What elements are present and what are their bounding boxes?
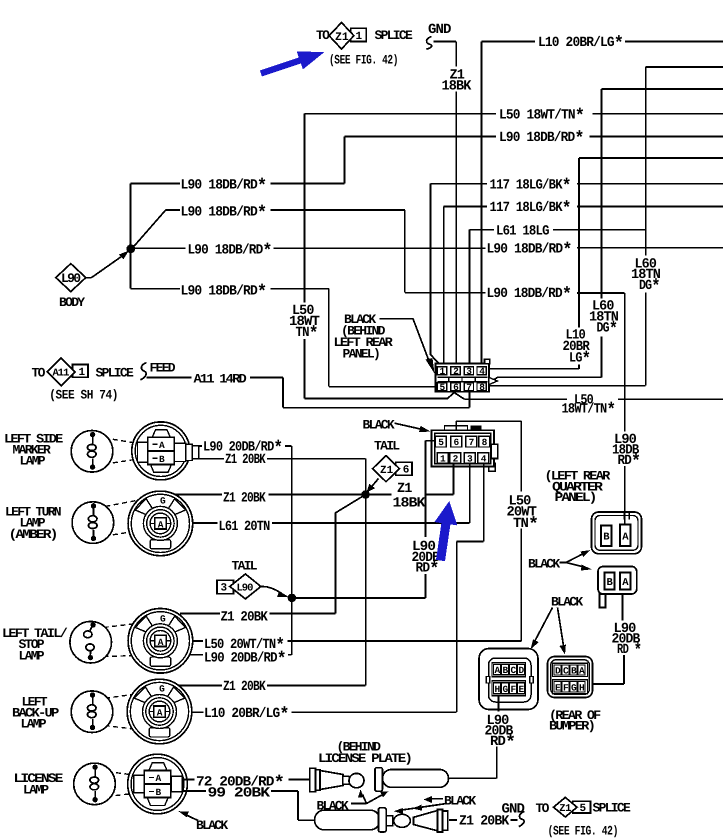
- svg-text:117 18LG/BK*: 117 18LG/BK*: [490, 176, 572, 197]
- svg-text:G: G: [160, 614, 166, 625]
- svg-text:C: C: [511, 665, 517, 676]
- wire L90 18DB/RD (left x130 through junction to right edge y247.7): [131, 240, 723, 262]
- svg-text:BLACK: BLACK: [528, 557, 560, 572]
- svg-text:RD*: RD*: [416, 559, 440, 580]
- svg-text:6: 6: [454, 437, 460, 448]
- svg-text:3: 3: [466, 366, 472, 377]
- svg-text:2: 2: [453, 454, 459, 465]
- svg-text:7: 7: [466, 382, 472, 393]
- svg-text:L90 18DB/RD*: L90 18DB/RD*: [181, 282, 268, 303]
- svg-text:L90 20DB/RD*: L90 20DB/RD*: [204, 649, 287, 670]
- svg-text:L61 20TN: L61 20TN: [219, 519, 270, 535]
- wire 117 18LG/BK no.1 (right edge y183.6 to C1 pin 1): [431, 176, 723, 367]
- svg-text:117 18LG/BK*: 117 18LG/BK*: [490, 199, 572, 220]
- wire 99 20BK (license lamp B to housing shell): [182, 785, 315, 820]
- connector C5 (8-way ABCD HGFE): [479, 649, 538, 710]
- svg-text:6: 6: [403, 465, 410, 477]
- label (REAR OF BUMPER): [549, 708, 601, 734]
- svg-text:L61 18LG: L61 18LG: [496, 223, 549, 239]
- socket left turn lamp (A terminal, G ground shell): [128, 491, 193, 556]
- svg-text:B: B: [159, 454, 165, 465]
- svg-text:5: 5: [580, 803, 587, 815]
- wire L60 (right edge y67 down x645 to C1 pin 8): [487, 67, 723, 386]
- rear lamp socket cylinder (lower): [315, 808, 448, 832]
- svg-text:L10 20BR/LG*: L10 20BR/LG*: [538, 33, 624, 54]
- svg-text:A: A: [156, 773, 162, 784]
- svg-text:A: A: [157, 708, 163, 719]
- svg-text:TO: TO: [316, 28, 330, 43]
- label BLACK with pointers to C5 and C6: [531, 594, 584, 654]
- wire L50 18WT/TN (from C1 pins 5/6 area to right edge y399): [453, 392, 723, 422]
- wire L10 20BR/LG (to right edge, down to C1 pin 4): [482, 33, 723, 366]
- svg-text:B: B: [571, 665, 577, 676]
- svg-text:Z1 20BK: Z1 20BK: [221, 609, 269, 625]
- label (BEHIND LICENSE PLATE): [318, 739, 411, 766]
- node junction dot (L90 distribution): [126, 244, 135, 253]
- lamp tail-stop bulb (dual filament): [70, 621, 146, 663]
- socket side marker lamp (A B terminals): [132, 422, 199, 480]
- svg-text:L90: L90: [61, 271, 81, 286]
- wire L61 20TN (turn lamp to C2 pin 3): [167, 464, 470, 535]
- wire L90 18DB/RD (left y210 jog down x405 to y293, right to x625 down to connector B-A): [166, 203, 625, 512]
- svg-text:F: F: [511, 684, 517, 695]
- wire Z1 20BK with ground GND (rear socket): [449, 801, 525, 829]
- svg-text:1: 1: [79, 367, 86, 379]
- svg-text:1: 1: [440, 366, 446, 377]
- svg-text:Z1 20BK: Z1 20BK: [223, 679, 266, 695]
- svg-text:Z1: Z1: [380, 465, 394, 477]
- svg-text:1: 1: [440, 454, 446, 465]
- label BLACK with pointers to rear socket: [394, 793, 477, 814]
- lamp LEFT BACK-UP LAMP label: [12, 695, 60, 732]
- svg-text:Z1: Z1: [559, 803, 571, 815]
- wire L50 20WT/TN (tail-stop lamp via x521 to C2 pin 6 and right): [193, 421, 539, 656]
- lamp back-up bulb: [71, 691, 136, 733]
- svg-text:TN*: TN*: [296, 324, 319, 345]
- svg-text:Z1 20BK: Z1 20BK: [223, 490, 266, 506]
- svg-text:G: G: [571, 682, 577, 693]
- lamp LICENSE LAMP label: [14, 771, 64, 798]
- label BLACK with pointers to C3 and C4: [528, 550, 592, 572]
- svg-text:PANEL): PANEL): [555, 490, 596, 505]
- svg-text:(AMBER): (AMBER): [9, 527, 57, 542]
- wire diagonal from junction to line 2: [131, 210, 166, 250]
- wire L10 20BR LG (right edge y157.9 down x579 to C1 right): [489, 158, 723, 370]
- svg-text:TO: TO: [32, 366, 46, 381]
- connector L90 BODY diamond: [56, 251, 129, 310]
- label BLACK with pointer to C2: [363, 418, 431, 433]
- svg-text:A11: A11: [53, 368, 70, 380]
- label L90 18DB RD (wire into C3): [612, 432, 641, 473]
- svg-text:A: A: [622, 532, 629, 544]
- svg-text:L90 18DB/RD*: L90 18DB/RD*: [188, 241, 273, 262]
- connector C4 (2-way B A): [598, 567, 637, 608]
- connector C3 (2-way B A, left rear quarter panel): [592, 512, 642, 554]
- svg-text:(SEE FIG. 42): (SEE FIG. 42): [548, 823, 618, 838]
- splice symbol Z1-6 (tail ground): [367, 456, 413, 493]
- wire L60 18TN DG (right edge y89 down x601 to C1 tab): [491, 89, 723, 382]
- wire Z1 20BK / Z1 18BK ground bus (turn lamp to C2 pin 2 through junction): [172, 464, 454, 512]
- svg-text:A11 14RD: A11 14RD: [194, 371, 248, 386]
- svg-text:E: E: [555, 682, 561, 693]
- svg-text:6: 6: [453, 382, 459, 393]
- svg-text:C: C: [563, 665, 569, 676]
- svg-text:H: H: [495, 684, 501, 695]
- svg-text:(SEE FIG. 42): (SEE FIG. 42): [329, 53, 398, 68]
- socket back-up lamp (A terminal, G ground shell): [127, 679, 192, 744]
- svg-text:E: E: [519, 684, 525, 695]
- svg-text:G: G: [159, 684, 165, 695]
- blue arrow 1 (pointing to Z1 splice): [260, 51, 324, 76]
- svg-text:FEED: FEED: [150, 361, 176, 376]
- connector C6 (8-way DCBA EFGH, rear of bumper): [548, 657, 593, 698]
- svg-text:L90 18DB/RD*: L90 18DB/RD*: [181, 203, 268, 224]
- svg-text:TAIL: TAIL: [374, 439, 400, 454]
- svg-text:SPLICE: SPLICE: [593, 801, 632, 816]
- wire L90 20DB RD (junction up x425.4 to C2 pin 5, label inline): [292, 441, 440, 598]
- license lamp plug (tapered, behind license plate): [310, 768, 364, 791]
- lamp LEFT TURN LAMP (AMBER) label: [5, 505, 61, 543]
- svg-text:RD*: RD*: [618, 452, 642, 473]
- wire L90 18DB/RD line 4 (left, y288.7 to C1 pin 5): [131, 282, 436, 387]
- svg-text:RD *: RD *: [617, 640, 642, 661]
- svg-text:B: B: [603, 532, 610, 544]
- svg-text:18BK: 18BK: [393, 495, 427, 511]
- svg-text:L90 18DB/RD*: L90 18DB/RD*: [499, 129, 585, 150]
- svg-text:BUMPER): BUMPER): [549, 719, 594, 734]
- connector C1 (8-way, behind left rear panel): [436, 359, 498, 393]
- splice symbol Z1-1 (TO Z1 1 SPLICE, SEE FIG. 42): [316, 23, 413, 68]
- wire Z1 18BK (GND to connector C1 pin 2): [434, 42, 472, 367]
- svg-text:LAMP: LAMP: [19, 649, 45, 664]
- svg-text:RD*: RD*: [490, 733, 516, 754]
- license lamp housing cylinder: [375, 768, 449, 792]
- connector C2 (8-way, tail lamp harness): [432, 426, 498, 471]
- svg-text:BLACK: BLACK: [363, 418, 395, 433]
- svg-text:LAMP: LAMP: [20, 454, 46, 469]
- svg-text:L90: L90: [237, 582, 254, 594]
- label BLACK with pointers to lamp plug: [317, 790, 389, 814]
- svg-text:1: 1: [356, 31, 363, 43]
- svg-text:G: G: [160, 496, 166, 507]
- svg-text:LAMP: LAMP: [21, 717, 47, 732]
- wire 72 20DB/RD (license lamp A to lamp plug): [182, 773, 310, 794]
- label (LEFT REAR QUARTER PANEL): [545, 469, 611, 505]
- node junction dot (L90 tail feed): [288, 594, 297, 603]
- svg-text:A: A: [622, 577, 629, 589]
- socket tail-stop lamp (A terminal, G ground shell): [128, 609, 193, 674]
- wire L90 20DB RD (C4 pin A down to C6): [591, 594, 642, 684]
- svg-text:SPLICE: SPLICE: [375, 28, 414, 43]
- svg-text:2: 2: [453, 366, 459, 377]
- svg-text:SPLICE: SPLICE: [96, 366, 135, 381]
- svg-text:B: B: [503, 665, 509, 676]
- wire L61 18LG (C1 pin 3 up to x645): [469, 223, 645, 366]
- svg-text:H: H: [579, 682, 585, 693]
- wire Z1 20BK (back-up lamp ground): [179, 679, 366, 695]
- wire left distribution vertical x130.5: [130, 184, 132, 289]
- svg-text:A: A: [159, 440, 165, 451]
- splice symbol Z1-5 (TO Z1 5 SPLICE, SEE FIG. 42): [536, 797, 632, 838]
- svg-text:BODY: BODY: [59, 295, 85, 310]
- splice symbol 3-L90 (tail feed): [217, 574, 289, 599]
- svg-text:DG*: DG*: [597, 319, 619, 340]
- svg-text:B: B: [607, 577, 614, 589]
- svg-text:A: A: [158, 519, 164, 530]
- wire L90 20DB/RD (marker lamp down x291.6 to tail-stop lamp): [199, 438, 292, 655]
- svg-text:D: D: [519, 665, 525, 676]
- wire Z1 20BK (tail-stop lamp, jog x335 diagonal to junction): [180, 495, 366, 626]
- svg-text:L50 18WT/TN*: L50 18WT/TN*: [499, 106, 585, 127]
- svg-text:BLACK: BLACK: [196, 818, 228, 833]
- splice symbol A11-1 (TO A11 1 SPLICE, SEE SH 74): [32, 358, 135, 403]
- svg-text:L90 18DB/RD*: L90 18DB/RD*: [181, 176, 268, 197]
- wire L10 20BR/LG (back-up lamp to C2 pin 4 via x456.6): [166, 464, 484, 726]
- svg-text:A: A: [158, 637, 164, 648]
- svg-text:7: 7: [469, 437, 475, 448]
- wire A11 14RD FEED (to C1 pin 7): [141, 361, 470, 408]
- svg-text:DG*: DG*: [639, 276, 661, 297]
- node junction dot (Z1 ground): [361, 490, 370, 499]
- svg-text:8: 8: [479, 382, 485, 393]
- wire 117 18LG/BK no.2 (right edge y206.4 to C1 pin 1): [444, 199, 723, 367]
- svg-text:4: 4: [481, 454, 487, 465]
- svg-text:B: B: [156, 787, 162, 798]
- lamp LEFT SIDE MARKER LAMP label: [4, 432, 63, 469]
- ground GND (top): [426, 22, 451, 49]
- svg-text:G: G: [503, 684, 509, 695]
- svg-text:(SEE SH 74): (SEE SH 74): [49, 388, 118, 403]
- svg-text:TN*: TN*: [513, 515, 539, 536]
- socket license lamp (A B terminals): [128, 754, 188, 814]
- wire L50 18WT/TN (right edge y113.7, down x304 to C1 pin 6): [289, 106, 723, 399]
- svg-text:GND: GND: [428, 22, 451, 38]
- wire L90 18DB/RD (right edge y136.5 joining left line1): [344, 129, 723, 184]
- svg-text:8: 8: [482, 437, 488, 448]
- svg-text:L90 18DB/RD*: L90 18DB/RD*: [487, 285, 573, 306]
- svg-text:5: 5: [440, 382, 446, 393]
- wire Z1 20BK (marker lamp down x365.6) and ground vertical to back-up lamp: [199, 452, 366, 685]
- label BLACK (BEHIND LEFT REAR PANEL) with pointer to C1: [334, 312, 435, 374]
- svg-text:D: D: [555, 665, 561, 676]
- lamp side marker bulb: [71, 431, 138, 473]
- svg-text:GND: GND: [502, 801, 525, 817]
- svg-text:BLACK: BLACK: [551, 594, 583, 609]
- blue arrow 2 (pointing to L90 tail feed wire): [435, 501, 458, 561]
- svg-text:5: 5: [438, 437, 444, 448]
- svg-text:TO: TO: [536, 801, 550, 816]
- lamp LEFT TAIL/STOP LAMP label: [2, 626, 68, 664]
- svg-text:F: F: [563, 682, 569, 693]
- svg-text:LAMP: LAMP: [23, 783, 49, 798]
- svg-text:A: A: [495, 665, 501, 676]
- svg-text:BLACK: BLACK: [444, 793, 476, 808]
- svg-text:3: 3: [221, 583, 228, 595]
- wire L90 18DB/RD line 1 (left, y183.5): [131, 176, 345, 197]
- svg-text:18WT/TN*: 18WT/TN*: [562, 400, 617, 421]
- svg-text:L10 20BR/LG*: L10 20BR/LG*: [204, 704, 290, 725]
- lamp left turn bulb: [72, 501, 136, 544]
- wire L90 20DB RD (C5 to license lamp housing): [448, 696, 516, 778]
- svg-text:99 20BK: 99 20BK: [208, 785, 271, 801]
- svg-text:3: 3: [467, 454, 473, 465]
- svg-text:LICENSE PLATE): LICENSE PLATE): [318, 751, 411, 766]
- wire L90 20DB/RD (tail-stop lamp label): [166, 649, 292, 670]
- svg-text:LG*: LG*: [569, 349, 591, 370]
- svg-text:L90 18DB/RD*: L90 18DB/RD*: [487, 240, 573, 261]
- svg-text:A: A: [579, 665, 585, 676]
- svg-text:18BK: 18BK: [442, 79, 472, 95]
- svg-text:PANEL): PANEL): [343, 347, 380, 362]
- label BLACK with pointer to license socket: [179, 811, 229, 833]
- svg-text:TAIL: TAIL: [232, 559, 258, 574]
- svg-text:4: 4: [479, 366, 485, 377]
- lamp license bulb: [74, 763, 142, 805]
- svg-text:Z1: Z1: [335, 31, 349, 44]
